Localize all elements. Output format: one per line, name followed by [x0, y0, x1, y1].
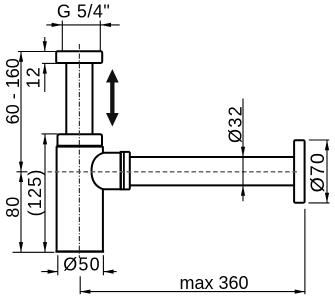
- arrowhead max360 right: [295, 290, 305, 294]
- arrowhead Ø32 lower: [241, 186, 245, 196]
- outlet union nut: [120, 151, 130, 153]
- cup bottom: [55, 250, 104, 252]
- Ø50 dim line: [41, 271, 58, 273]
- svg-text:Ø32: Ø32: [225, 105, 245, 143]
- arrowhead 12 lower: [43, 63, 47, 73]
- flange top extension line: [18, 51, 57, 53]
- svg-text:12: 12: [24, 66, 44, 88]
- svg-text:(125): (125): [25, 168, 45, 216]
- max360 right extension: [304, 209, 306, 294]
- arrowhead G5/4 right: [100, 23, 111, 27]
- 12 dim line below: [44, 63, 46, 92]
- arrowhead 12 upper: [43, 41, 47, 51]
- arrowhead Ø70 bottom: [325, 193, 329, 203]
- (125) top extension: [42, 133, 58, 135]
- 12 dim line above: [44, 37, 46, 52]
- trap top union nut: [58, 134, 103, 146]
- Ø70 dim line: [326, 140, 328, 203]
- Ø32 dim line through pipe: [242, 157, 244, 186]
- svg-text:max 360: max 360: [179, 273, 248, 293]
- arrowhead Ø50 left: [48, 270, 58, 274]
- centerline horizontal (outlet pipe axis): [48, 171, 300, 173]
- top flange nut G5/4: [56, 51, 102, 63]
- svg-text:G 5/4": G 5/4": [57, 2, 110, 22]
- bullet right face thick: [119, 152, 121, 190]
- arrowhead Ø32 upper: [241, 147, 245, 157]
- nut bottom thick line: [56, 145, 103, 148]
- wall flange rosette: [294, 140, 305, 202]
- max360 dim line: [80, 291, 305, 293]
- svg-text:Ø50: Ø50: [63, 254, 101, 274]
- centerline vertical (trap axis): [78, 44, 80, 258]
- Ø50 extensions: [57, 255, 59, 275]
- arrowhead (125) bottom: [43, 242, 47, 252]
- 60-160 dim line: [20, 52, 22, 172]
- Ø32 dim line lower: [242, 186, 244, 202]
- flange bottom extension line (12): [42, 62, 57, 64]
- svg-text:60 - 160: 60 - 160: [3, 58, 23, 124]
- arrowhead (125) top: [43, 134, 47, 144]
- svg-text:Ø70: Ø70: [307, 152, 329, 192]
- arrowhead Ø50 right: [103, 270, 113, 274]
- svg-text:80: 80: [3, 196, 23, 218]
- arrowhead 60-160 top: [19, 52, 23, 62]
- G 5/4 extension lines: [61, 21, 63, 52]
- Ø70 extensions: [309, 139, 330, 141]
- arrowhead G5/4 left: [52, 23, 63, 27]
- inlet pipe (tailpiece): [65, 64, 67, 135]
- arrowhead max360 left: [80, 290, 90, 294]
- max360 left extension: [79, 276, 81, 294]
- outlet pipe: [130, 156, 295, 158]
- bottom shared extension: [13, 251, 55, 253]
- adjustment double arrow: [106, 69, 119, 127]
- arrowhead bowtie lower: [19, 172, 23, 182]
- arrowhead bowtie upper: [19, 162, 23, 172]
- outlet elbow bullet: [92, 153, 104, 190]
- cup body (bottle): [56, 146, 58, 251]
- 80 dim line: [20, 172, 22, 253]
- centerline tick at dim: [17, 171, 28, 173]
- (125) dim line: [44, 134, 46, 252]
- arrowhead Ø70 top: [325, 140, 329, 150]
- arrowhead 80 bottom: [19, 242, 23, 252]
- G 5/4 dimension line: [46, 24, 119, 26]
- Ø32 dim line upper: [242, 99, 244, 158]
